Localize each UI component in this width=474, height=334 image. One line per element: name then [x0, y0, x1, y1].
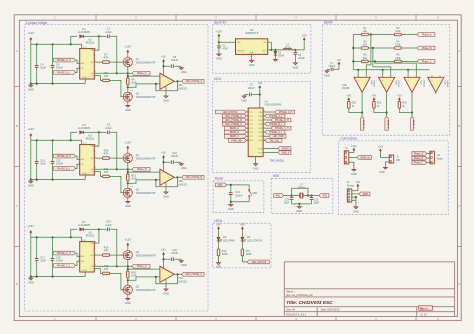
svg-text:LM339: LM339	[446, 81, 448, 88]
power +5V at opamp phase A	[161, 54, 166, 63]
svg-text:+5V: +5V	[161, 54, 166, 58]
svg-text:TIM_CH1: TIM_CH1	[269, 140, 280, 142]
node VCC/C rail junction 1 phase A	[36, 43, 38, 45]
svg-text:LL4148WS: LL4148WS	[78, 31, 91, 34]
section box: Connectors	[339, 137, 449, 215]
svg-text:LED_STATUS: LED_STATUS	[252, 261, 267, 264]
net label Phase_B	[132, 167, 150, 171]
section box: MCU	[212, 77, 310, 172]
svg-text:3-phase bridge: 3-phase bridge	[25, 21, 47, 25]
wire HIN phase B	[76, 156, 80, 159]
wire +12V vertical rail phase A	[30, 41, 32, 84]
resistor R19 2mR shunt	[127, 271, 137, 278]
svg-text:LIN: LIN	[81, 68, 85, 70]
svg-text:LO: LO	[91, 75, 94, 77]
svg-text:220R: 220R	[222, 253, 228, 256]
pin stubs MCU row 8	[246, 139, 265, 142]
svg-text:+12V: +12V	[27, 127, 34, 131]
net label BEMF_B (vertical)	[385, 117, 389, 131]
svg-text:BEMF: BEMF	[324, 20, 333, 24]
net label PHASE_A_L	[54, 71, 76, 75]
net label PHASE_B_L (MCU right)	[265, 122, 285, 126]
pin stubs MCU row 3	[246, 119, 265, 122]
node phase wire junction B	[116, 168, 118, 170]
svg-text:47uH: 47uH	[285, 46, 291, 49]
svg-text:VCC: VCC	[82, 47, 87, 49]
capacitor C17 10uF	[35, 237, 46, 276]
wire to bypass cap phase B	[164, 161, 171, 163]
svg-text:GND: GND	[125, 301, 131, 305]
node VCC/C rail junction 2 phase A	[52, 43, 54, 45]
svg-text:2.2uF: 2.2uF	[105, 224, 112, 227]
svg-text:Phase_A: Phase_A	[137, 72, 147, 75]
transistor Q2 high-side MOSFET	[123, 154, 132, 163]
wire bootstrap cap to phase node B	[110, 132, 117, 169]
wire C2 to ground	[218, 48, 220, 53]
wire J4 pin1	[352, 190, 358, 192]
svg-text:PWR_SW: PWR_SW	[231, 140, 242, 142]
wire C7 to ground	[327, 68, 330, 70]
wire J4 pin2	[352, 193, 359, 195]
wire VB riser phase A	[94, 36, 99, 50]
svg-text:GND: GND	[125, 204, 131, 208]
wire to catch diode	[274, 50, 276, 52]
wire LO to low gate resistor phase B	[100, 172, 102, 177]
svg-text:47R: 47R	[104, 250, 109, 253]
resistor R11 47R low-side gate	[103, 168, 110, 178]
LED D6 LED_STATUS	[241, 236, 263, 242]
capacitor C13 100nF reset	[229, 185, 243, 202]
svg-text:Buck 5V: Buck 5V	[214, 20, 227, 24]
wire +12V to Q high drain phase B	[127, 150, 129, 154]
net label LED_STATUS (MCU left)	[215, 110, 246, 114]
power +12V at J1	[351, 145, 357, 152]
power +12V at Q high phase B	[124, 141, 131, 150]
resistor R16 220R	[217, 249, 228, 256]
net label BEMF_C (vertical)	[410, 117, 414, 131]
wire COM to ground phase C	[84, 272, 86, 277]
net label PHASE_C_L (MCU right)	[265, 130, 285, 134]
wire VCC rail phase A	[31, 44, 82, 48]
net label Phase_A	[132, 71, 150, 75]
ground at J1	[351, 168, 357, 176]
svg-text:LM339: LM339	[397, 81, 399, 88]
svg-text:KiCad E.D.A. 8.0.1: KiCad E.D.A. 8.0.1	[286, 314, 307, 317]
inductor L1 47uH	[283, 43, 292, 50]
wire opamp feedback phase C	[156, 274, 178, 284]
svg-text:2: 2	[78, 62, 79, 64]
svg-text:WSD30N04DN4TP: WSD30N04DN4TP	[136, 193, 156, 195]
svg-text:ADC_PHASE_A: ADC_PHASE_A	[225, 115, 242, 118]
title block	[284, 262, 454, 317]
svg-text:GND: GND	[296, 209, 302, 213]
svg-text:Phase_C: Phase_C	[422, 61, 432, 63]
ground at C7	[324, 70, 330, 78]
svg-text:ON/OFF: ON/OFF	[237, 51, 245, 53]
wire ground rail phase A	[31, 83, 85, 85]
wire neutral to comparator input	[382, 70, 384, 76]
node phase C	[127, 265, 129, 267]
svg-text:Phase_A: Phase_A	[414, 152, 424, 155]
svg-text:Id: 1/1: Id: 1/1	[421, 313, 428, 316]
power +12V rail phase C	[27, 224, 34, 234]
svg-text:PHASE_A_L: PHASE_A_L	[269, 115, 283, 118]
wire phase node vertical B	[127, 163, 129, 174]
svg-text:ADC_PHASE_B: ADC_PHASE_B	[225, 119, 242, 122]
wire VB to bootstrap cap phase C	[99, 228, 107, 230]
wire bypass cap to ground phase A	[174, 65, 181, 67]
svg-text:100k: 100k	[395, 30, 401, 33]
wire opamp output phase B	[174, 176, 181, 178]
net label PHASE_C_H	[54, 251, 76, 255]
node pullup join BEMF_A	[361, 111, 363, 113]
capacitor C10 10uF	[35, 140, 46, 179]
pin stubs MCU row 4	[246, 123, 265, 126]
power +5V at D5	[216, 223, 221, 231]
capacitor C14 20pF	[284, 196, 294, 205]
wire +12V vertical rail phase B	[30, 137, 32, 180]
svg-text:File: esc_ch32.kicad_sch: File: esc_ch32.kicad_sch	[286, 294, 313, 297]
svg-text:+5V: +5V	[302, 34, 307, 38]
svg-text:SW1: SW1	[252, 192, 258, 195]
wire divider left row Phase_C	[353, 60, 361, 62]
wire VCC rail phase C	[31, 237, 82, 241]
net label PHASE_C_H (MCU right)	[265, 126, 291, 130]
svg-text:Rev: 1: Rev: 1	[420, 307, 428, 310]
section box: Reset	[213, 177, 264, 213]
svg-text:LM339: LM339	[342, 87, 350, 90]
transistor Q5 low-side MOSFET	[123, 188, 132, 197]
node divider Phase_B	[372, 47, 374, 49]
svg-text:GND: GND	[293, 65, 299, 69]
svg-text:Phase_B: Phase_B	[137, 169, 147, 171]
connector J1 PWR_IN	[344, 148, 349, 164]
capacitor C5 2.2uF bootstrap	[105, 124, 112, 135]
svg-text:HO: HO	[90, 62, 93, 64]
transistor Q1 high-side MOSFET	[123, 58, 132, 67]
note U3E LM339 power unit	[342, 84, 350, 90]
svg-text:5: 5	[95, 172, 96, 174]
net label ADC_PHASE_B (MCU left)	[222, 118, 246, 122]
wire pullup to output BEMF_B	[374, 108, 387, 112]
wire divider mid row Phase_C	[368, 60, 394, 62]
svg-text:LM339: LM339	[372, 81, 374, 88]
svg-text:13: 13	[263, 139, 265, 141]
svg-text:PHASE_A_L: PHASE_A_L	[57, 71, 71, 74]
wire HSE ground rail	[292, 203, 312, 205]
wire D5 to R16	[218, 241, 220, 249]
svg-text:14: 14	[263, 135, 265, 137]
svg-text:10uF: 10uF	[40, 67, 46, 70]
wire HO to gate resistor phase B	[94, 157, 102, 159]
node reset ground	[230, 201, 232, 203]
svg-text:GND: GND	[163, 98, 169, 102]
wire LIN phase B	[76, 164, 80, 168]
wire drop Phase_C to comparator	[375, 61, 416, 75]
net label SWCLK (MCU bottom right)	[258, 151, 290, 155]
svg-text:+5V: +5V	[337, 59, 342, 62]
svg-text:Connectors: Connectors	[340, 137, 357, 141]
svg-text:GND: GND	[125, 108, 131, 112]
wire crystal right	[304, 195, 319, 197]
net label PWR_SW (MCU left)	[228, 139, 246, 143]
power +5V at D6	[240, 223, 245, 231]
svg-text:100nF: 100nF	[171, 155, 179, 158]
node VCC/C rail junction 2 phase C	[52, 236, 54, 238]
svg-text:WSD30N04DN4TP: WSD30N04DN4TP	[136, 62, 156, 64]
gate driver U2 IR2101	[78, 37, 96, 79]
svg-text:BEMF_A: BEMF_A	[362, 120, 365, 129]
ground phase C left	[28, 277, 34, 285]
svg-text:47R: 47R	[104, 171, 109, 174]
wire D6 to R17	[241, 241, 243, 249]
ground at bypass cap phase B	[179, 163, 186, 171]
ground at opamp phase A	[163, 95, 169, 103]
resistor R6 100k	[395, 54, 402, 63]
wire VS to phase node A	[94, 72, 128, 74]
wire Q low source to ground phase B	[127, 197, 129, 200]
node phase B	[127, 168, 129, 170]
wire phase node to label C	[128, 265, 132, 267]
ground at MCU bypass	[241, 95, 247, 103]
wire VS to phase node C	[94, 265, 128, 267]
wire gate resistor to Q high phase A	[109, 61, 123, 63]
svg-text:RST: RST	[218, 185, 223, 187]
wire comparator supply	[334, 66, 339, 70]
resistor R10 47R high-side gate	[103, 150, 110, 160]
wire drop Phase_A to comparator	[366, 35, 371, 76]
svg-text:SWCLK: SWCLK	[281, 152, 290, 154]
wire opamp feedback phase A	[156, 81, 178, 91]
wire Phase_C to J3	[427, 162, 430, 164]
ground at Q low phase C	[125, 297, 131, 305]
svg-text:PHASE_C_L: PHASE_C_L	[57, 264, 71, 267]
gate driver U3 IR2101	[78, 133, 96, 175]
svg-text:24MHz: 24MHz	[297, 187, 306, 190]
svg-text:10uF: 10uF	[40, 260, 46, 263]
wire VCC rail phase B	[31, 140, 82, 144]
net label PHASE_A_L (MCU right)	[265, 114, 285, 118]
wire to LED_STATUS label	[242, 261, 247, 263]
svg-text:6: 6	[247, 131, 248, 133]
svg-text:VCC: VCC	[82, 240, 87, 242]
svg-text:100nF: 100nF	[235, 195, 243, 198]
wire gate resistor to Q high phase B	[109, 157, 123, 159]
wire RST net	[227, 184, 250, 186]
wire LO stub phase A	[94, 75, 100, 77]
svg-text:5: 5	[95, 76, 96, 78]
svg-text:PHASE_C_L: PHASE_C_L	[269, 131, 283, 134]
transistor Q6 low-side MOSFET	[123, 285, 132, 294]
capacitor C6 100nF	[51, 44, 64, 83]
svg-text:GND: GND	[181, 166, 187, 170]
svg-text:Size: A4: Size: A4	[286, 309, 295, 312]
wire divider right row Phase_B	[401, 47, 417, 49]
wire J1 pin1	[349, 152, 354, 154]
svg-text:4: 4	[247, 123, 248, 125]
wire +5V to MCU VDD	[259, 89, 261, 108]
power +12V at J2	[377, 146, 383, 153]
svg-text:BAT: BAT	[396, 159, 401, 162]
svg-text:20pF: 20pF	[314, 202, 320, 205]
svg-text:LMV321: LMV321	[178, 183, 188, 186]
net label PHASE_C_L	[54, 264, 76, 268]
wire Phase_A to J3	[427, 153, 430, 155]
MCU ground pin	[253, 157, 259, 171]
svg-text:PHASE_C_H: PHASE_C_H	[275, 127, 289, 130]
node shunt bottom sense phase B	[127, 182, 129, 184]
gate driver U6 IR2101	[78, 230, 96, 272]
node buck input	[218, 41, 220, 43]
wire opamp + input phase C	[128, 268, 160, 270]
svg-text:7: 7	[247, 135, 248, 137]
diode D7 LL4148WS bootstrap	[78, 221, 91, 231]
svg-text:BEMF_B: BEMF_B	[230, 132, 240, 134]
svg-text:SWD: SWD	[363, 194, 369, 196]
node opamp supply phase B	[162, 161, 164, 163]
wire bypass cap to ground phase C	[174, 258, 181, 260]
svg-text:100nF: 100nF	[56, 163, 64, 166]
wire comparator output BEMF_B	[386, 94, 388, 117]
svg-text:+12V: +12V	[124, 45, 131, 49]
comparator U3D LM339 (spare, unconnected)	[428, 76, 448, 94]
svg-text:20: 20	[263, 111, 265, 113]
resistor R12 1k pullup	[348, 101, 357, 108]
node shunt bottom sense phase C	[127, 279, 129, 281]
wire opamp V- to ground phase C	[165, 280, 167, 288]
wire J4 pin3	[352, 196, 356, 198]
wire COM to ground phase A	[84, 79, 86, 84]
wire +12V to J2	[380, 152, 389, 157]
svg-text:PHASE_C_H: PHASE_C_H	[57, 252, 71, 255]
power +12V buck input	[216, 29, 223, 37]
resistor R20 1k pullup	[398, 101, 407, 108]
svg-text:HO: HO	[90, 158, 93, 160]
svg-text:+5V: +5V	[161, 150, 166, 154]
net label Phase_C	[132, 264, 150, 268]
svg-text:1: 1	[247, 111, 248, 113]
svg-text:GND: GND	[181, 263, 187, 267]
section box: 3-phase bridge	[25, 21, 209, 311]
node phase wire junction C	[116, 265, 118, 267]
diode D2 SS34 catch	[274, 51, 285, 57]
svg-text:Title: CH32V003 ESC: Title: CH32V003 ESC	[286, 300, 333, 305]
node shunt top sense phase B	[127, 171, 129, 173]
svg-text:GND: GND	[216, 266, 221, 268]
wire ground rail phase C	[31, 276, 85, 278]
svg-text:COM: COM	[82, 173, 87, 175]
svg-text:PHASE_B_H: PHASE_B_H	[275, 119, 289, 122]
resistor R13 2mR shunt	[127, 174, 137, 181]
svg-text:HSE: HSE	[273, 174, 281, 178]
svg-text:2.2uF: 2.2uF	[105, 31, 112, 34]
svg-text:Sheet: /: Sheet: /	[286, 290, 295, 293]
wire diode to VB node phase A	[83, 35, 99, 37]
svg-text:Phase_B: Phase_B	[414, 158, 424, 160]
wire divider mid row Phase_A	[368, 34, 394, 36]
svg-text:10uF: 10uF	[40, 163, 46, 166]
node opamp supply phase C	[162, 258, 164, 260]
resistor R18 47R low-side gate	[103, 265, 110, 275]
net label BEMF_C (MCU left)	[224, 134, 246, 138]
wire LIN phase C	[76, 261, 80, 265]
transistor Q4 low-side MOSFET	[123, 92, 132, 101]
ground at LED_PWR	[216, 262, 221, 269]
svg-text:A: A	[16, 49, 18, 53]
svg-text:5: 5	[95, 269, 96, 271]
svg-text:Date: 2024-05-03: Date: 2024-05-03	[321, 309, 340, 312]
node shunt top sense phase A	[127, 75, 129, 77]
wire J1 pin2	[349, 156, 357, 158]
wire bypass cap to ground	[244, 94, 248, 96]
connector J4 Debug	[347, 181, 355, 202]
power +12V rail phase A	[27, 31, 34, 41]
net label PHASE_B_H	[54, 154, 76, 158]
svg-text:PA1: PA1	[276, 194, 281, 197]
power +5V pullup R15	[372, 95, 377, 102]
svg-text:GND: GND	[163, 194, 169, 198]
svg-text:GND: GND	[324, 74, 330, 77]
svg-text:SWDIO: SWDIO	[281, 148, 289, 150]
ground at buck input	[216, 53, 222, 61]
resistor R5 10k	[362, 54, 369, 63]
section box: BEMF comparators	[322, 20, 450, 135]
wire FB loop	[268, 42, 272, 50]
capacitor C9 100nF MCU bypass	[248, 84, 256, 97]
node divider Phase_C	[374, 60, 376, 62]
svg-text:LED_STATUS: LED_STATUS	[223, 111, 238, 114]
ground at J2	[379, 166, 387, 174]
ground at Q low phase A	[125, 104, 131, 112]
svg-text:2: 2	[247, 115, 248, 117]
ground phase B left	[28, 180, 34, 188]
node VB phase B	[98, 131, 100, 133]
svg-text:U3D: U3D	[444, 81, 446, 86]
wire VS to phase node B	[94, 168, 128, 170]
node RST cap top	[230, 184, 232, 186]
svg-text:PHASE_A_H: PHASE_A_H	[279, 111, 293, 114]
capacitor C12 100nF	[51, 140, 64, 179]
net label LED_PWR (MCU right)	[265, 134, 286, 138]
node neutral bus junction	[407, 69, 409, 71]
svg-text:ADC_PHASE_A: ADC_PHASE_A	[185, 80, 202, 83]
svg-text:GND: GND	[28, 184, 34, 188]
section box: LEDs	[213, 219, 271, 268]
svg-text:WSD30N04DN4TP: WSD30N04DN4TP	[136, 255, 156, 257]
svg-text:19: 19	[263, 115, 265, 117]
ground at bypass cap phase C	[179, 260, 186, 268]
connector J3 Motor	[430, 151, 443, 164]
svg-text:IR2101: IR2101	[86, 41, 95, 45]
net label SWDIO (MCU bottom right)	[258, 147, 290, 151]
wire bootstrap cap to phase node A	[110, 36, 117, 73]
svg-text:8: 8	[95, 49, 96, 51]
svg-text:GND: GND	[163, 291, 169, 295]
wire diode to VB node phase C	[83, 228, 99, 230]
wire pullup to output BEMF_A	[349, 108, 362, 112]
svg-text:8: 8	[247, 139, 248, 141]
svg-text:COM: COM	[82, 77, 87, 79]
node VCC/C rail junction 1 phase B	[36, 139, 38, 141]
power +12V rail phase B	[27, 127, 34, 137]
capacitor C3 220uF buck output	[294, 52, 306, 60]
wire bypass cap to ground phase B	[174, 161, 181, 163]
net label Phase_C (BEMF)	[417, 60, 435, 64]
svg-text:LIN: LIN	[81, 164, 85, 166]
svg-text:+12V: +12V	[216, 29, 223, 33]
node opamp feedback junction phase C	[176, 273, 178, 275]
svg-text:+12V: +12V	[124, 141, 131, 145]
